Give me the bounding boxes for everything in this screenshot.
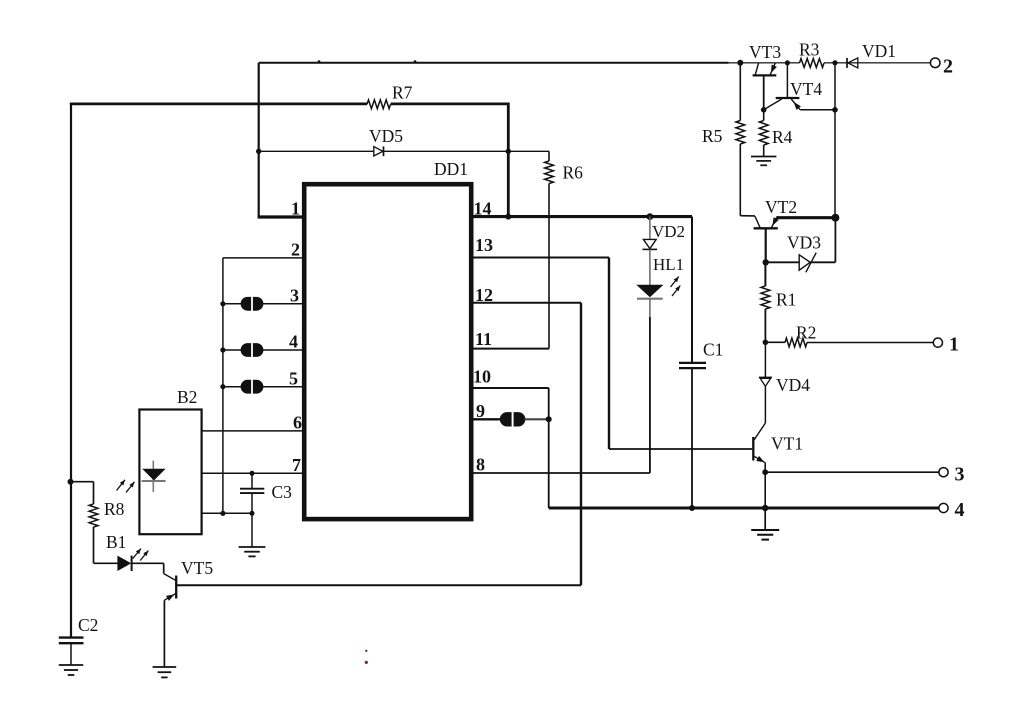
wire R7 line left segment <box>70 103 367 106</box>
svg-text:DD1: DD1 <box>434 159 468 179</box>
wire pin 4 left stub <box>223 349 242 351</box>
svg-text:R5: R5 <box>702 126 723 146</box>
junction VT1 emitter line3 <box>762 469 768 475</box>
svg-text:R7: R7 <box>392 83 413 103</box>
wire C2 bottom stem <box>70 643 72 664</box>
junction pin14 HL1 branch <box>647 213 654 220</box>
diode VD5 <box>374 147 383 156</box>
wire HL1 chain to pin 8 <box>649 317 651 473</box>
resistor R5 <box>736 121 745 145</box>
wire pin 5 left stub <box>223 386 242 388</box>
wire vertical x835 lower <box>834 218 836 263</box>
wire R5 vertical upper <box>739 63 741 121</box>
photodiode inside B2 <box>152 461 154 492</box>
wire R8 branch horizontal <box>71 481 94 483</box>
junction VD3 left node <box>763 259 769 265</box>
junction VT4 emitter x835 <box>832 107 838 113</box>
transistor VT3 <box>753 74 777 76</box>
wire HL1 chain upper <box>649 217 651 240</box>
wire C3 to ground <box>251 513 253 546</box>
svg-text:5: 5 <box>289 369 298 389</box>
junction bus bottom <box>220 511 225 516</box>
svg-text:13: 13 <box>475 235 493 255</box>
transistor VT2 <box>754 227 778 229</box>
svg-text:VT3: VT3 <box>749 42 781 62</box>
junction speck on top rail <box>318 60 321 63</box>
contact symbol pin 9 <box>500 412 512 426</box>
terminal 2 circle <box>930 58 940 68</box>
wire HL1 chain lower gray <box>649 299 651 317</box>
contact symbol pin 5 <box>241 380 252 394</box>
wire pin 6 from B2 <box>202 430 306 432</box>
wire R1 bottom stem <box>764 309 766 342</box>
speck artifact upper <box>365 650 367 652</box>
LED HL1 arrows <box>671 277 679 288</box>
wire R4 top stem <box>763 110 765 121</box>
wire VD5 line left <box>259 150 374 152</box>
junction bus pin 4 <box>220 347 225 352</box>
capacitor C1 <box>679 362 706 364</box>
svg-text:10: 10 <box>473 367 491 387</box>
wire VT4 emitter to x835 <box>800 109 835 111</box>
wire pin 5 right stub <box>263 386 307 388</box>
resistor R1 <box>761 286 770 309</box>
wire pin 9 symbol to junction <box>525 418 549 420</box>
transistor VT5 <box>175 576 177 599</box>
wire R4 bottom stem <box>763 145 765 156</box>
diode VD4 <box>759 376 772 378</box>
wire vertical x609 pin13 down <box>608 258 610 450</box>
wire pin 2 <box>223 257 306 259</box>
wire VD3 line left <box>766 261 800 263</box>
svg-text:R1: R1 <box>776 290 796 310</box>
junction pin14 at x509 <box>505 214 511 220</box>
junction R3 VD1 x835 <box>832 60 837 65</box>
LED B1 arrows <box>133 549 141 559</box>
resistor R2 <box>785 338 807 347</box>
resistor R8 <box>89 504 98 527</box>
junction bus pin 5 <box>220 384 225 389</box>
svg-text:R4: R4 <box>772 127 793 147</box>
wire VT1 ground stem <box>764 508 766 530</box>
diode VD2 <box>643 239 656 248</box>
svg-text:VT2: VT2 <box>765 197 797 217</box>
LED HL1 <box>636 285 663 297</box>
ground under VT5 <box>153 666 177 668</box>
svg-text:9: 9 <box>476 401 485 421</box>
wire pin 12 line <box>469 302 581 304</box>
svg-text:VD4: VD4 <box>776 375 810 395</box>
wire R7 line right segment <box>391 103 509 106</box>
junction VT2 emitter x835 <box>831 214 839 222</box>
svg-text:4: 4 <box>955 499 965 521</box>
optocoupler B2 box <box>139 410 201 535</box>
junction VD5 line left end <box>256 149 261 154</box>
svg-text:R6: R6 <box>563 163 584 183</box>
svg-text:VD2: VD2 <box>652 222 685 241</box>
wire top supply rail thick segment <box>259 62 729 64</box>
wire VD4 to VT1 collector <box>764 386 766 423</box>
wire VT1 emitter to line 4 <box>764 472 766 508</box>
junction line4 VT1 <box>762 505 768 511</box>
svg-text:VT1: VT1 <box>771 434 803 454</box>
ground under C3 <box>239 546 266 548</box>
wire VT1 emitter stem <box>764 462 766 472</box>
junction VD5 line at x509 <box>506 149 511 154</box>
svg-text:4: 4 <box>289 332 298 352</box>
svg-text:6: 6 <box>293 413 302 433</box>
svg-text:1: 1 <box>291 199 300 219</box>
terminal 3 circle <box>939 468 948 477</box>
wire vertical x509 R7 to pin 14 <box>507 103 510 218</box>
junction line4 C1 <box>689 505 695 511</box>
wire VD4 top stem <box>764 342 766 377</box>
svg-text:VT5: VT5 <box>181 558 213 578</box>
svg-text:VD5: VD5 <box>369 126 403 146</box>
wire R2 to terminal 1 <box>807 342 933 344</box>
svg-text:2: 2 <box>291 240 300 260</box>
transistor VT1 <box>752 437 754 461</box>
svg-text:C2: C2 <box>78 615 98 635</box>
diode VD1 <box>846 58 848 68</box>
svg-text:R3: R3 <box>799 40 820 60</box>
wire VT5 emitter vertical <box>163 600 165 666</box>
wire pin 9 stub <box>469 418 501 420</box>
wire left rail vertical <box>70 103 72 638</box>
wire VT5 collector drop <box>163 563 165 573</box>
wire vertical x835 upper <box>834 63 836 218</box>
svg-text:VT4: VT4 <box>790 79 822 99</box>
wire left bus vertical <box>222 258 224 513</box>
ground under C2 <box>59 664 83 666</box>
wire C3 bottom stem <box>251 493 253 513</box>
junction top rail R5 branch <box>737 60 743 66</box>
junction VT4 rail base <box>785 60 790 65</box>
contact symbol pin 3 <box>241 297 252 311</box>
wire pin13 to VT1 base <box>609 448 752 450</box>
junction left rail R8 <box>68 479 74 485</box>
resistor R6 <box>545 161 554 184</box>
svg-text:3: 3 <box>955 464 965 486</box>
wire pin 11 line <box>469 348 549 350</box>
capacitor C3 <box>240 488 264 490</box>
wire R8 top stem <box>93 482 95 504</box>
wire VT2 base stem <box>765 228 767 262</box>
svg-text:B2: B2 <box>177 387 197 407</box>
wire top supply rail right of R3 <box>824 62 931 64</box>
wire B1 to VT5 <box>132 562 164 564</box>
transistor VT4 <box>786 63 788 98</box>
wire R5 corner to VT2 <box>740 215 755 217</box>
wire VT5 base line <box>176 584 581 586</box>
speck artifact lower <box>365 661 368 664</box>
svg-text:R8: R8 <box>104 499 125 519</box>
svg-text:3: 3 <box>290 286 299 306</box>
wire R8 bottom stem <box>93 527 95 563</box>
wire vertical x581 pin12 down <box>580 303 582 586</box>
wire pin 4 right stub <box>263 349 307 351</box>
svg-text:C1: C1 <box>703 340 723 360</box>
wire R6 top stem <box>548 151 550 161</box>
junction pin 9 and pin 10 <box>546 416 552 422</box>
svg-text:C3: C3 <box>272 482 293 502</box>
wire R2 left stub <box>765 341 785 343</box>
svg-text:1: 1 <box>949 334 959 356</box>
wire C3 top stem <box>251 473 253 488</box>
terminal 4 circle <box>939 503 948 512</box>
wire VD3 line right <box>810 261 835 263</box>
ground under VT1 <box>751 529 779 531</box>
op-amp U1 IC DD1 body <box>304 184 471 519</box>
junction R2 node <box>763 340 769 346</box>
wire pin 1 to DD1 <box>258 215 306 218</box>
wire pin 3 left stub <box>223 303 242 305</box>
wire B2 bottom pin <box>202 512 252 514</box>
resistor R7 <box>367 100 391 109</box>
wire C1 upper stem <box>691 217 693 362</box>
wire R5 vertical lower <box>739 144 741 216</box>
LED B1 <box>117 556 131 571</box>
resistor R3 <box>800 59 825 68</box>
junction speck on top rail 2 <box>414 60 417 63</box>
wire pin 8 line <box>469 472 650 474</box>
wire VT2 emitter thick line <box>776 216 835 219</box>
wire line 4 common <box>549 507 939 510</box>
junction bus pin 3 <box>220 301 225 306</box>
svg-text:2: 2 <box>943 56 953 78</box>
svg-text:B1: B1 <box>106 532 126 552</box>
wire pin 13 line <box>469 257 609 259</box>
junction VT3 base R4 <box>761 107 767 113</box>
diode VD3 <box>799 255 810 270</box>
wire VT3 base stem <box>763 75 765 109</box>
wire line 3 to terminal <box>765 471 939 473</box>
svg-text:11: 11 <box>475 329 492 349</box>
contact symbol pin 4 <box>241 343 252 357</box>
wire HL1 chain middle <box>649 249 651 285</box>
junction pin7 C3 <box>250 471 255 476</box>
wire R6 to pin 11 <box>548 184 550 349</box>
svg-text:R2: R2 <box>796 323 816 343</box>
svg-text:8: 8 <box>476 455 485 475</box>
wire vertical from top rail to pin 1 <box>258 63 260 217</box>
wire VD5 line to R6 <box>508 150 549 152</box>
wire pin 14 line <box>469 215 692 218</box>
wire R8 to B1 <box>94 562 118 564</box>
wire top supply rail thin segment <box>729 62 800 64</box>
wire VD5 line right <box>384 150 509 152</box>
resistor R4 <box>759 121 768 146</box>
svg-text:7: 7 <box>292 455 301 475</box>
wire vertical x548 pin10 down <box>548 388 550 508</box>
wire R1 top stem <box>764 262 766 286</box>
junction C3 bottom <box>250 511 255 516</box>
wire pin 7 from B2 <box>202 472 306 474</box>
svg-text:HL1: HL1 <box>653 255 684 274</box>
svg-text:VD3: VD3 <box>787 233 821 253</box>
capacitor C2 <box>59 636 84 638</box>
svg-text:VD1: VD1 <box>862 41 896 61</box>
photodiode B2 arrows <box>117 480 126 491</box>
wire pin 10 line <box>469 387 549 389</box>
wire C1 lower stem <box>691 368 693 508</box>
ground under R4 <box>751 156 776 158</box>
terminal 1 circle <box>933 338 942 347</box>
wire pin 3 right stub <box>263 303 307 305</box>
